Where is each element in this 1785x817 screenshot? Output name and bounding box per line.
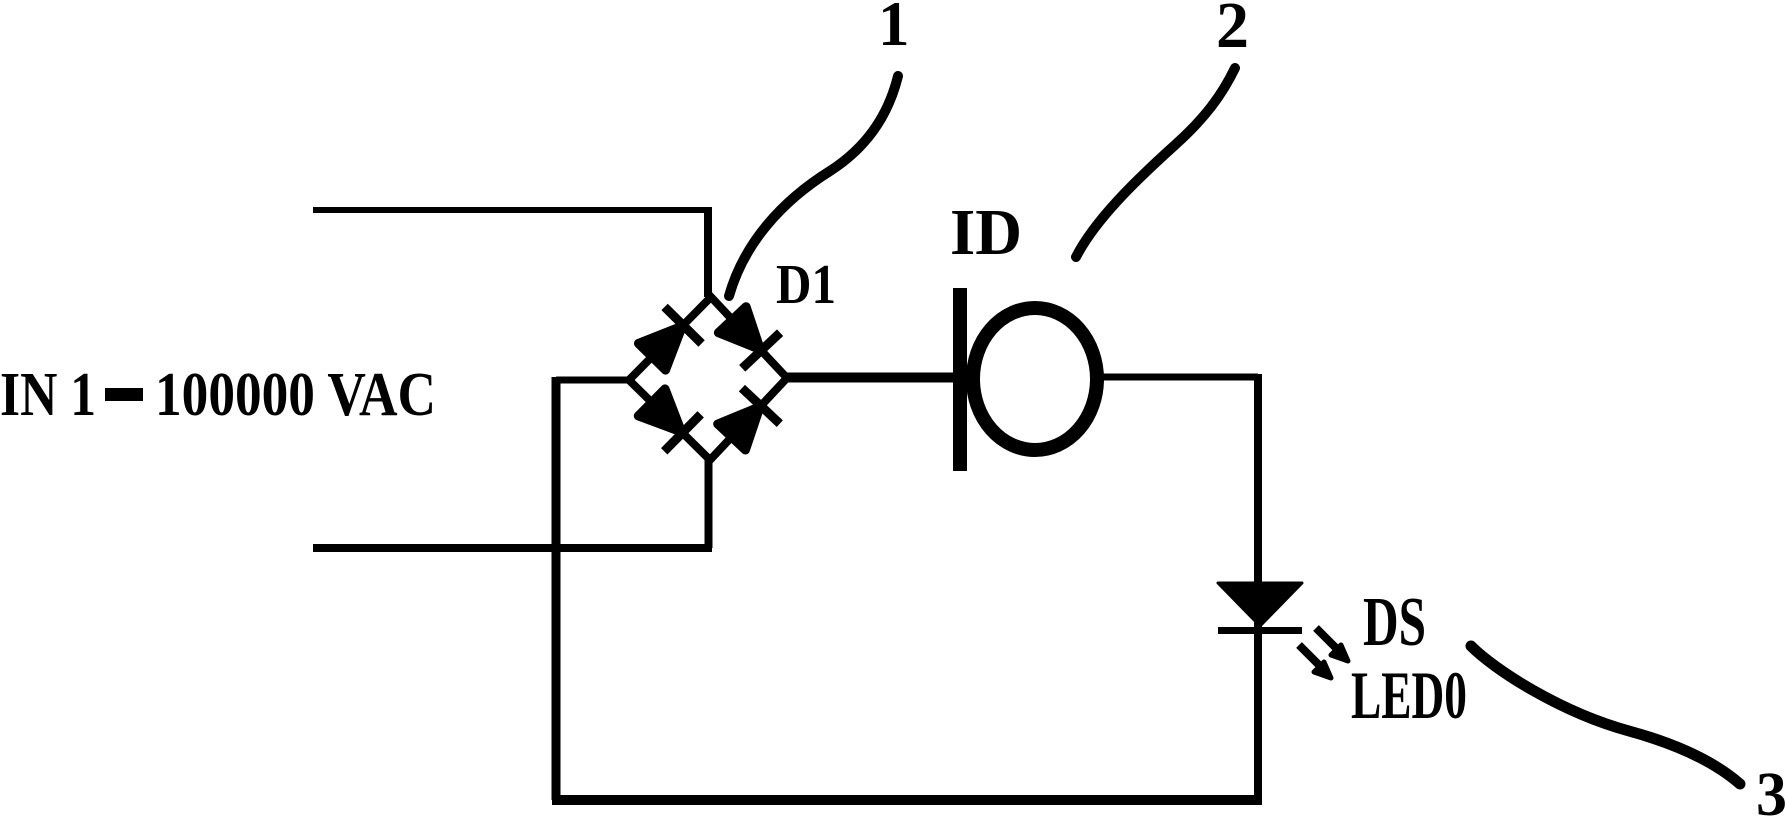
- svg-text:IN 1: IN 1: [0, 361, 96, 429]
- wire: top AC input vertical drop to bridge top: [704, 207, 712, 297]
- wire: bottom AC input vertical rise to bridge bottom: [705, 460, 713, 548]
- LED DS anode triangle: [1218, 583, 1302, 626]
- wire: left branch vertical down: [552, 377, 561, 800]
- diode D1 upper-right cathode bar: [742, 333, 780, 369]
- leader curve to reference 2: [1076, 68, 1235, 257]
- wire: right branch vertical down through LED: [1254, 374, 1262, 800]
- svg-text:3: 3: [1756, 761, 1785, 817]
- bridge rectifier D1 diamond outline: [629, 297, 787, 460]
- LED DS emission arrow lower: [1299, 645, 1331, 678]
- wire: bridge left vertex stub to left branch: [556, 377, 629, 384]
- leader curve to reference 1: [729, 76, 898, 296]
- wire: top AC input horizontal: [313, 207, 708, 213]
- wire: bottom AC input horizontal: [313, 544, 712, 552]
- svg-text:1: 1: [878, 0, 910, 59]
- label dash of input text: [105, 388, 143, 401]
- svg-text:LED0: LED0: [1351, 657, 1467, 733]
- leader curve to reference 3: [1471, 646, 1740, 784]
- diode D1 lower-left cathode bar: [664, 414, 701, 451]
- diode D1 lower-left triangle: [638, 389, 681, 432]
- svg-text:2: 2: [1216, 0, 1249, 62]
- svg-text:ID: ID: [950, 196, 1022, 269]
- current detector ID circle: [973, 308, 1097, 450]
- wire: bottom return rail: [552, 795, 1262, 805]
- svg-text:D1: D1: [776, 254, 836, 316]
- svg-text:100000 VAC: 100000 VAC: [155, 361, 436, 429]
- diode D1 lower-right triangle: [718, 407, 760, 450]
- LED DS cathode bar: [1218, 627, 1302, 634]
- current detector ID plate bar: [953, 288, 967, 471]
- diode D1 upper-left triangle: [638, 326, 682, 370]
- svg-text:DS: DS: [1363, 584, 1426, 661]
- diode D1 lower-right cathode bar: [742, 388, 780, 424]
- wire: detector circle to top-right corner: [1100, 374, 1258, 381]
- diode D1 upper-right triangle: [718, 307, 760, 350]
- diode D1 upper-left cathode bar: [665, 307, 702, 344]
- LED DS emission arrow upper: [1316, 628, 1348, 661]
- wire: bridge right vertex to detector bar: [787, 373, 956, 383]
